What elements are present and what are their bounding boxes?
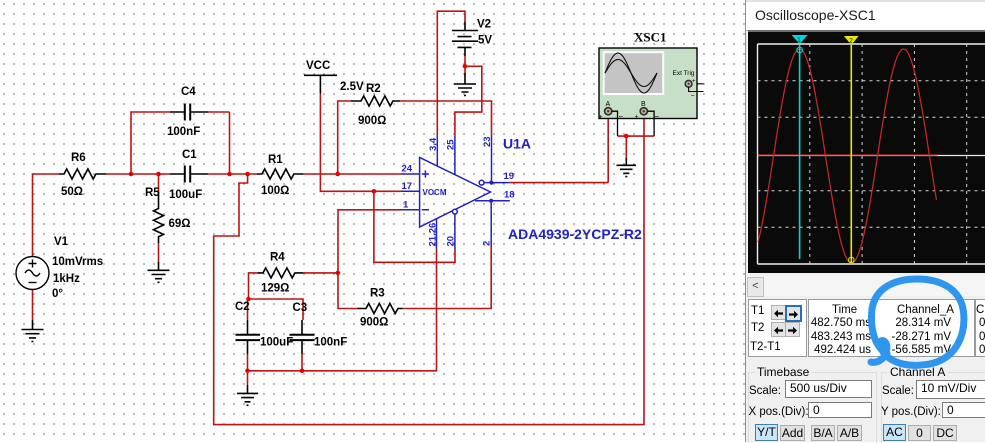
- wire R5 top: [158, 174, 160, 193]
- wire V2 node to pin 25: [455, 66, 482, 135]
- wire R4 left lead: [249, 273, 258, 299]
- resistor R4: [258, 268, 304, 278]
- svg-text:100uF: 100uF: [169, 189, 202, 201]
- oscilloscope instrument icon XSC1: [599, 48, 704, 136]
- wire C1 right to R1 left: [208, 173, 257, 175]
- svg-text:VOCM: VOCM: [423, 188, 447, 197]
- resistor R1: [257, 169, 303, 179]
- wire R5 bottom to ground: [158, 243, 160, 262]
- pin 21,26 lead (bottom): [436, 219, 438, 249]
- wire R3 right to pin 2: [403, 246, 492, 309]
- svg-text:23: 23: [482, 136, 493, 147]
- wire op-amp output pin 19 to scope A: [510, 115, 608, 183]
- capacitor C4: [170, 111, 208, 113]
- graticule dashed grid: [758, 44, 985, 264]
- svg-text:C3: C3: [293, 302, 308, 314]
- svg-text:1: 1: [403, 200, 409, 211]
- svg-text:24: 24: [402, 164, 413, 175]
- pin 19 output lead with bubble: [479, 180, 484, 185]
- wire C4 branch right vertical: [208, 112, 230, 174]
- svg-text:18: 18: [504, 190, 515, 201]
- svg-text:+: +: [599, 114, 603, 121]
- svg-text:+: +: [692, 79, 696, 85]
- svg-text:U1A: U1A: [503, 136, 531, 152]
- svg-text:Ext Trig: Ext Trig: [673, 70, 695, 77]
- svg-text:ADA4939-2YCPZ-R2: ADA4939-2YCPZ-R2: [508, 226, 642, 242]
- pin 2 lead (to feedback R3): [490, 201, 492, 246]
- junction pin23/pin19: [489, 181, 493, 185]
- wire scope minus terminals to ground: [618, 136, 655, 158]
- wire V1 bottom to ground: [32, 290, 34, 321]
- wire V2 bottom node: [464, 56, 466, 73]
- ground (R5): [148, 262, 170, 282]
- svg-text:3,4: 3,4: [428, 137, 439, 151]
- wire R6 right to C1 left (junction segment): [106, 173, 170, 175]
- svg-text:R5: R5: [145, 187, 160, 199]
- oscilloscope window: [745, 0, 985, 442]
- op-amp U1A triangle: [401, 135, 510, 249]
- svg-text:10mVrms: 10mVrms: [52, 256, 103, 268]
- wire feedback node to scope B (long bottom route): [214, 115, 644, 425]
- channel A sine trace: [758, 49, 937, 263]
- svg-text:R3: R3: [370, 288, 385, 300]
- svg-text:17: 17: [402, 181, 413, 192]
- source V1: [16, 257, 49, 290]
- svg-text:V2: V2: [477, 19, 491, 31]
- wire C3 bottom: [301, 354, 303, 371]
- ground (V2): [454, 73, 476, 96]
- channel B flat trace: [758, 154, 938, 156]
- ground (C2 node): [237, 385, 258, 405]
- svg-text:25: 25: [446, 139, 457, 150]
- svg-text:1kHz: 1kHz: [53, 273, 80, 285]
- timebase group: [748, 372, 877, 443]
- svg-text:VCC: VCC: [306, 60, 330, 72]
- ground (scope): [617, 158, 637, 177]
- capacitor C1: [170, 173, 208, 175]
- junction pin2/pin18: [489, 199, 493, 203]
- VCC power symbol: [304, 75, 337, 93]
- pin 17 lead VOCM: [401, 190, 420, 192]
- svg-text:100nF: 100nF: [314, 337, 347, 349]
- cursor readout panel: [748, 299, 807, 357]
- wire V2 top to positive supply rail pin 3,4: [437, 11, 465, 135]
- pin 1 lead (-): [401, 209, 429, 211]
- svg-text:−: −: [619, 112, 624, 121]
- svg-text:C1: C1: [182, 149, 197, 161]
- svg-text:20: 20: [446, 236, 457, 247]
- wire C2/C3 top node: [248, 299, 304, 320]
- capacitor C2: [247, 320, 249, 354]
- svg-text:C4: C4: [181, 86, 196, 98]
- svg-text:R6: R6: [71, 152, 86, 164]
- svg-text:100nF: 100nF: [167, 126, 200, 138]
- svg-text:21,26: 21,26: [428, 223, 439, 247]
- battery V2: [452, 21, 478, 56]
- svg-text:R4: R4: [270, 252, 285, 264]
- svg-text:900Ω: 900Ω: [358, 115, 386, 127]
- svg-text:19: 19: [504, 171, 515, 182]
- scope A minus stub: [612, 111, 618, 136]
- pin 25 lead (top): [454, 135, 456, 174]
- resistor R2: [351, 96, 400, 106]
- svg-text:900Ω: 900Ω: [360, 317, 388, 329]
- svg-text:0°: 0°: [52, 288, 63, 300]
- svg-text:C2: C2: [235, 301, 250, 313]
- svg-text:2: 2: [482, 241, 493, 246]
- channel A group: [881, 372, 985, 443]
- pin 18 output lead: [475, 200, 510, 202]
- scope terminal B: [640, 108, 647, 115]
- capacitor C3: [301, 320, 303, 354]
- wire main node to R2 left: [338, 101, 351, 174]
- svg-text:100Ω: 100Ω: [261, 185, 289, 197]
- wire VOCM junction to pin 20 loop: [374, 191, 455, 262]
- svg-text:V1: V1: [54, 236, 69, 248]
- pin 24 lead (+): [401, 170, 429, 177]
- svg-text:5V: 5V: [478, 35, 492, 47]
- wire V1 top to R6 left: [33, 174, 60, 257]
- graticule border: [758, 44, 985, 264]
- wire C2 node to ground: [247, 371, 249, 385]
- wire VCC to pin 17 VOCM: [320, 94, 401, 192]
- svg-text:R1: R1: [268, 154, 283, 166]
- wire R1 right to op-amp pin 24: [303, 173, 401, 175]
- svg-text:100uF: 100uF: [260, 337, 293, 349]
- wire bottom node to pin 21,26: [248, 249, 437, 371]
- scope display: [748, 32, 985, 273]
- svg-text:2: 2: [849, 38, 853, 45]
- scope terminal A: [605, 108, 612, 115]
- scope B minus stub: [647, 111, 654, 136]
- resistor R3: [357, 304, 403, 314]
- svg-text:129Ω: 129Ω: [261, 283, 289, 295]
- wire C4 branch left vertical: [131, 112, 170, 174]
- pin 3,4 lead (top supply): [436, 135, 438, 166]
- svg-text:R2: R2: [366, 83, 381, 95]
- wire C2 bottom: [247, 354, 249, 371]
- pin 20 lead with bubble: [454, 214, 456, 249]
- wire R4 right lead to pin1 vertical: [303, 272, 338, 274]
- cursor 1 (cyan): [799, 45, 801, 259]
- wire pin 1 to R4/R3 vertical: [338, 210, 401, 309]
- svg-text:−: −: [691, 93, 695, 100]
- svg-text:69Ω: 69Ω: [169, 218, 191, 230]
- cursor 2 (yellow): [850, 45, 852, 263]
- resistor R6: [59, 169, 106, 179]
- resistor R5 (vertical): [154, 193, 164, 243]
- wire R2 right to pin 23: [400, 101, 492, 136]
- svg-text:+: +: [635, 114, 639, 121]
- center axis line: [758, 155, 985, 157]
- svg-text:−: −: [655, 112, 660, 121]
- pin 23 lead (feedback to output 19): [491, 136, 493, 183]
- svg-text:1: 1: [797, 37, 801, 44]
- ground (V1): [22, 320, 44, 342]
- scroll bar row: [747, 276, 985, 296]
- svg-text:2.5V: 2.5V: [340, 81, 364, 93]
- svg-text:XSC1: XSC1: [634, 30, 667, 45]
- svg-text:50Ω: 50Ω: [61, 186, 83, 198]
